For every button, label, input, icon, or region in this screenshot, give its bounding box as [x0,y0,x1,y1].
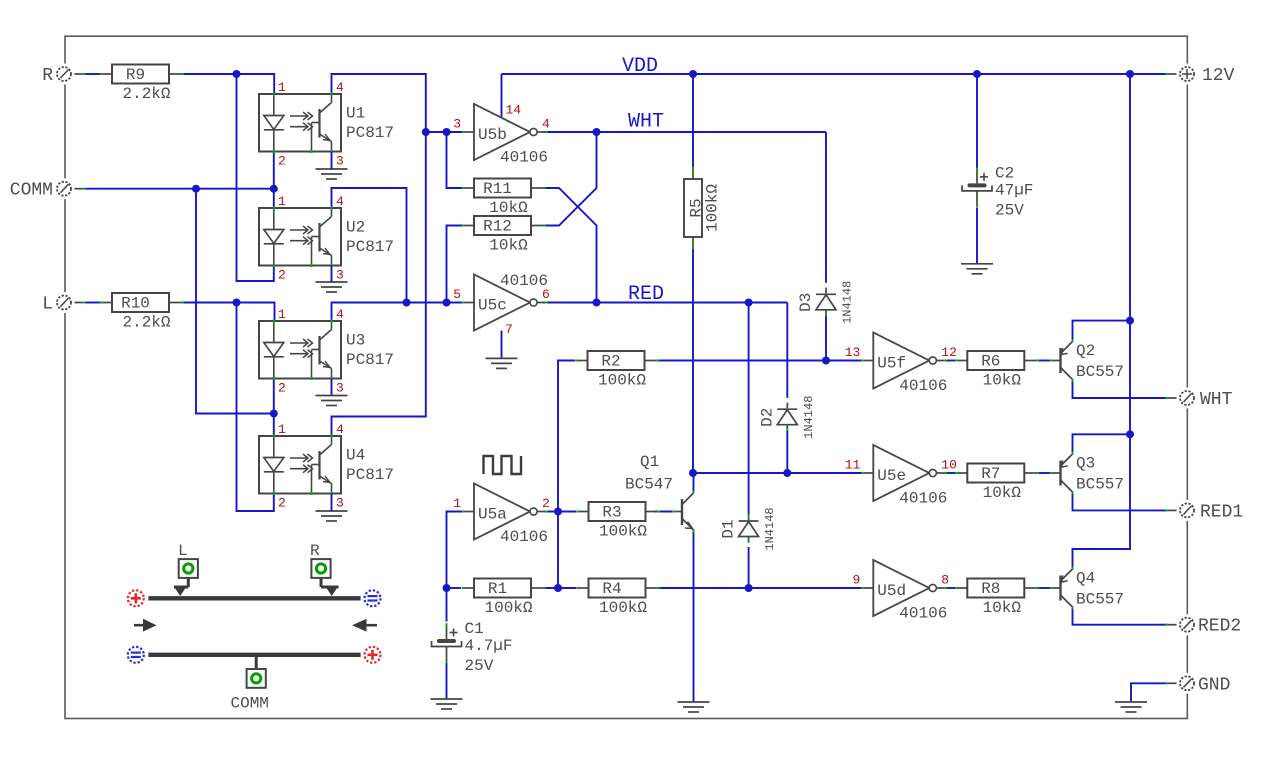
resistor R11 [462,179,546,218]
svg-text:R3: R3 [602,504,621,522]
wire Q1 collector node to U5e input [693,472,861,474]
svg-text:10kΩ: 10kΩ [983,372,1022,390]
svg-text:40106: 40106 [899,605,947,623]
junction U5c-in-1 [403,299,411,307]
svg-text:3: 3 [336,496,344,511]
svg-text:L: L [178,542,188,560]
wire Q4 collector to RED2 [1073,608,1168,625]
svg-text:100kΩ: 100kΩ [599,523,647,541]
square wave symbol [484,456,522,474]
op-amp U5b (U5b inverter) [453,104,550,167]
svg-text:40106: 40106 [500,149,548,167]
wire U3 pin2 / U4 pin1 [273,379,275,437]
svg-text:U2: U2 [346,219,365,237]
svg-text:U5f: U5f [877,355,906,373]
svg-text:Q4: Q4 [1076,570,1095,588]
optocoupler U3 (U3 PC817) [259,307,394,396]
wire U5a input down [447,512,463,589]
junction U5c-in-2 [443,299,451,307]
svg-text:3: 3 [453,117,461,132]
resistor R4 [576,579,660,618]
track terminal blue top-right [365,590,381,606]
wire WHT net [543,131,826,133]
svg-text:R11: R11 [483,180,512,198]
track bus bottom bar [148,653,360,657]
svg-text:47µF: 47µF [995,181,1033,199]
junction D3-pin13 [822,357,830,365]
svg-text:R: R [42,66,53,86]
wire U2 pin4 to U5c input [332,188,407,303]
svg-text:R8: R8 [981,580,1000,598]
svg-text:D1: D1 [720,519,738,538]
ground C1 [431,699,463,709]
ground U2 pin3 [316,282,348,292]
svg-text:U3: U3 [346,332,365,350]
svg-text:Q2: Q2 [1076,342,1095,360]
wire Q2 emitter to 12V [1073,321,1131,341]
junction U5b-in-1 [422,128,430,136]
svg-text:RED: RED [628,283,664,306]
wire R6 to Q2 base [1037,360,1051,362]
junction L/R10 [233,299,241,307]
junction Q3-emitter [1126,430,1134,438]
op-amp U5a (U5a inverter) [453,484,550,547]
svg-text:WHT: WHT [628,111,664,134]
wire D1 to R4 line [748,547,750,588]
svg-text:4: 4 [336,80,344,95]
svg-text:C1: C1 [465,620,484,638]
svg-text:10kΩ: 10kΩ [983,484,1022,502]
svg-text:100kΩ: 100kΩ [598,372,646,390]
svg-text:40106: 40106 [899,377,947,395]
svg-text:D2: D2 [758,408,776,427]
wire to C1 [446,588,448,622]
svg-text:8: 8 [941,573,949,588]
direction arrow right [352,619,377,632]
svg-text:4: 4 [336,194,344,209]
track terminal blue bottom-left [128,647,144,663]
op-amp U5f (U5f inverter) [845,333,957,396]
svg-text:4: 4 [336,307,344,322]
transistor Q3 (Q3 BC557 PNP) [1050,452,1124,495]
svg-text:Q1: Q1 [640,453,659,471]
junction COMM-2 [270,185,278,193]
svg-text:2: 2 [278,496,286,511]
svg-text:40106: 40106 [500,528,548,546]
resistor R2 [575,351,659,390]
svg-text:10kΩ: 10kΩ [489,237,528,255]
svg-text:COMM: COMM [10,181,53,201]
svg-text:100kΩ: 100kΩ [704,184,722,232]
node L input (terminal) [54,292,75,313]
svg-text:BC557: BC557 [1076,476,1124,494]
svg-text:100kΩ: 100kΩ [599,599,647,617]
wire R11 right to RED [543,188,597,303]
svg-text:U1: U1 [346,105,365,123]
wire D3 to pin13 line [825,316,827,361]
svg-text:40106: 40106 [899,490,947,508]
diode D2 (D2 1N4148) [758,396,816,439]
svg-text:L: L [42,295,53,315]
svg-text:RED1: RED1 [1200,502,1243,522]
wire R4 to U5d input [658,587,861,589]
svg-text:U5e: U5e [877,467,906,485]
ground Q1 [678,702,710,712]
wire R10 to U3 pin1 [181,303,275,322]
svg-text:BC557: BC557 [1076,591,1124,609]
connection pad R [311,559,330,578]
svg-text:2.2kΩ: 2.2kΩ [122,85,170,103]
svg-text:R7: R7 [981,465,1000,483]
resistor R3 [576,502,660,541]
op-amp U5e (U5e inverter) [845,445,957,508]
svg-text:R6: R6 [981,353,1000,371]
node R input (terminal) [54,64,75,85]
svg-text:U4: U4 [346,447,365,465]
resistor R10 [100,293,184,332]
wire WHT to R12 right [543,132,597,226]
svg-text:4.7µF: 4.7µF [465,637,513,655]
svg-text:R1: R1 [488,580,507,598]
wire R9 to U1 pin1 [181,74,274,94]
node WHT output (terminal) [1177,388,1198,409]
wire R terminal to R9 [85,73,100,75]
svg-text:BC557: BC557 [1076,363,1124,381]
svg-text:5: 5 [453,287,461,302]
wire U5a out to R3 [545,511,576,513]
svg-text:4: 4 [542,117,550,132]
direction arrow left [134,619,157,632]
wire WHT down to D3 [825,132,827,283]
wire U5a out to R1/R4 node [557,512,559,589]
svg-text:40106: 40106 [500,272,548,290]
junction D1-R4 [745,584,753,592]
svg-text:1: 1 [453,496,461,511]
svg-text:U5b: U5b [478,126,507,144]
svg-text:2: 2 [542,496,550,511]
ground GND [1115,702,1147,712]
ground U1 pin3 [316,169,348,179]
svg-text:7: 7 [505,322,513,337]
svg-text:U5c: U5c [478,297,507,315]
node 12V (terminal) [1177,64,1198,85]
junction RED-1 [593,299,601,307]
track terminal red top-left [128,590,144,606]
ground U4 pin3 [316,511,348,521]
wire VDD to C2 [976,74,978,168]
wire U1 pin4 to U5b input [332,74,426,132]
node RED2 output (terminal) [1177,614,1198,635]
svg-text:PC817: PC817 [346,238,394,256]
wire U2 pin3 to ground [331,266,333,283]
wire R2 left to U5a output [558,361,575,512]
junction D2-node [783,469,791,477]
track bus top bar [148,596,360,600]
svg-text:12: 12 [941,345,957,360]
wire down to U4 pin4 [332,303,426,437]
transistor Q1 BC547 [625,453,694,532]
svg-text:25V: 25V [465,657,494,675]
svg-text:R10: R10 [121,295,150,313]
svg-text:1N4148: 1N4148 [841,281,855,324]
transistor Q4 (Q4 BC557 PNP) [1050,567,1124,610]
capacitor C2 (C2) [962,164,1033,219]
svg-text:COMM: COMM [231,695,269,713]
svg-text:D3: D3 [797,293,815,312]
wire COMM to U3/U4 midpoint [196,189,274,414]
junction VDD-right [1126,70,1134,78]
optocoupler U2 (U2 PC817) [259,194,394,283]
wire U3 pin4 to U5c input [332,303,463,322]
svg-text:U5d: U5d [877,582,906,600]
resistor R12 [462,216,546,255]
resistor R9 [100,65,184,104]
wire 12V to Q4 emitter [1073,434,1131,568]
svg-text:1: 1 [278,307,286,322]
svg-text:R: R [310,542,320,560]
ground U5c pin7 [486,358,518,368]
svg-text:U5a: U5a [478,506,507,524]
wire Q3 collector to RED1 [1073,493,1168,511]
resistor R8 [955,579,1039,618]
svg-text:R4: R4 [602,580,621,598]
resistor R1 [462,579,546,618]
COMM tap assembly [255,656,258,669]
wire GND terminal to ground [1131,683,1168,702]
wire RED to D1 [748,303,750,515]
svg-text:Q3: Q3 [1076,455,1095,473]
svg-text:100kΩ: 100kΩ [484,599,532,617]
svg-text:3: 3 [336,268,344,283]
svg-text:GND: GND [1198,675,1230,695]
wire U4 pin3 to ground [331,494,333,512]
wire Q1 collector [693,473,695,493]
diode D3 (D3 1N4148) [797,281,855,324]
wire VDD rail [502,73,1168,75]
optocoupler U4 (U4 PC817) [259,422,394,511]
node COMM input (terminal) [54,178,75,199]
svg-text:10: 10 [941,458,957,473]
transistor Q2 (Q2 BC557 PNP) [1050,339,1124,382]
ground U3 pin3 [316,396,348,406]
wire U1 pin3 to ground [331,152,333,170]
wire U5b input [426,131,462,133]
junction R1-R4 [554,584,562,592]
connection pad L [179,559,198,578]
svg-text:2.2kΩ: 2.2kΩ [122,314,170,332]
wire 12V drop [1129,74,1131,434]
wire R1 to R4 [544,587,577,589]
svg-text:VDD: VDD [622,55,658,78]
junction C1-node [443,584,451,592]
svg-text:R9: R9 [126,66,145,84]
svg-text:PC817: PC817 [346,124,394,142]
wire VDD to R5 [692,74,694,167]
wire R8 to Q4 base [1037,587,1051,589]
wire RED net [543,302,787,304]
wire U5d out to R8 [945,587,955,589]
op-amp U5c (U5c inverter) [453,272,550,331]
svg-text:1N4148: 1N4148 [802,396,816,439]
wire U5f out to R6 [945,360,955,362]
svg-text:WHT: WHT [1200,390,1233,410]
svg-text:R12: R12 [483,218,512,236]
junction VDD-C2 [973,70,981,78]
junction COMM-1 [192,185,200,193]
connection pad COMM [247,669,266,688]
junction Q2-emitter [1126,317,1134,325]
wire C1 node to R1 [447,587,462,589]
terminal pin stubs [71,73,83,75]
wire U5e out to R7 [945,472,955,474]
junction WHT-1 [593,128,601,136]
junction RED-D1 [745,299,753,307]
svg-text:C2: C2 [995,164,1014,182]
svg-text:6: 6 [542,287,550,302]
resistor R6 [955,351,1039,390]
ground C2 [961,264,993,274]
svg-text:3: 3 [336,154,344,169]
wire R7 to Q3 base [1037,472,1051,474]
svg-text:RED2: RED2 [1198,617,1241,637]
track terminal red bottom-right [365,647,381,663]
wire Q3 emitter [1073,434,1131,453]
wire R3 to Q1 base [654,511,673,513]
diode D1 (D1 1N4148) [720,507,778,550]
svg-text:1: 1 [278,194,286,209]
wire R5 to Q1 collector node [692,249,694,473]
svg-text:11: 11 [845,458,861,473]
junction Q1-collector [689,469,697,477]
wire C2 to ground [976,208,978,264]
wire R node to U2 pin2 [237,74,274,281]
svg-text:2: 2 [278,154,286,169]
svg-text:10kΩ: 10kΩ [489,199,528,217]
capacitor C1 (C1) [432,620,513,675]
R tap assembly [321,578,339,596]
node GND (terminal) [1177,673,1198,694]
optocoupler U1 (U1 PC817) [259,80,394,169]
L tap assembly [174,578,189,596]
junction U5b-in-2 [443,128,451,136]
wire RED down to D2 [786,303,788,398]
wire L node to U4 pin2 [237,303,274,512]
svg-text:2: 2 [278,268,286,283]
svg-text:12V: 12V [1202,66,1235,86]
svg-text:4: 4 [336,422,344,437]
svg-text:25V: 25V [995,201,1024,219]
svg-text:14: 14 [506,103,522,118]
wire U5b input down [425,132,427,303]
junction R/R9 [233,70,241,78]
svg-text:10kΩ: 10kΩ [983,599,1022,617]
wire U5b pin14 [501,74,503,117]
svg-text:9: 9 [852,573,860,588]
svg-text:R2: R2 [601,353,620,371]
svg-text:PC817: PC817 [346,466,394,484]
svg-text:3: 3 [336,381,344,396]
resistor R7 [955,464,1039,503]
svg-text:1N4148: 1N4148 [763,507,777,550]
junction VDD-R5 [689,70,697,78]
wire COMM rail [85,188,274,190]
wire R12 left down [447,226,463,303]
svg-text:13: 13 [845,345,861,360]
op-amp U5d (U5d inverter) [852,560,949,623]
svg-text:1: 1 [278,422,286,437]
wire Q2 collector to WHT [1073,380,1168,398]
wire U3 pin3 to ground [331,379,333,396]
svg-text:1: 1 [278,80,286,95]
svg-text:PC817: PC817 [346,351,394,369]
wire to R11 left [447,132,463,188]
wire D2 to collector node [786,431,788,474]
wire U5c pin7 to ground [501,331,503,359]
wire C1 to ground [446,663,448,699]
svg-text:2: 2 [278,381,286,396]
svg-text:BC547: BC547 [625,476,673,494]
wire L terminal to R10 [85,302,100,304]
junction U5a-out [554,508,562,516]
wire Q1 emitter to ground [693,532,695,703]
junction opto-mid [270,410,278,418]
node RED1 output (terminal) [1177,500,1198,521]
resistor R5 [684,167,722,250]
wire U1 pin2 / U2 pin1 [273,152,275,209]
wire R2 to U5f input (pin13 line) [657,360,861,362]
